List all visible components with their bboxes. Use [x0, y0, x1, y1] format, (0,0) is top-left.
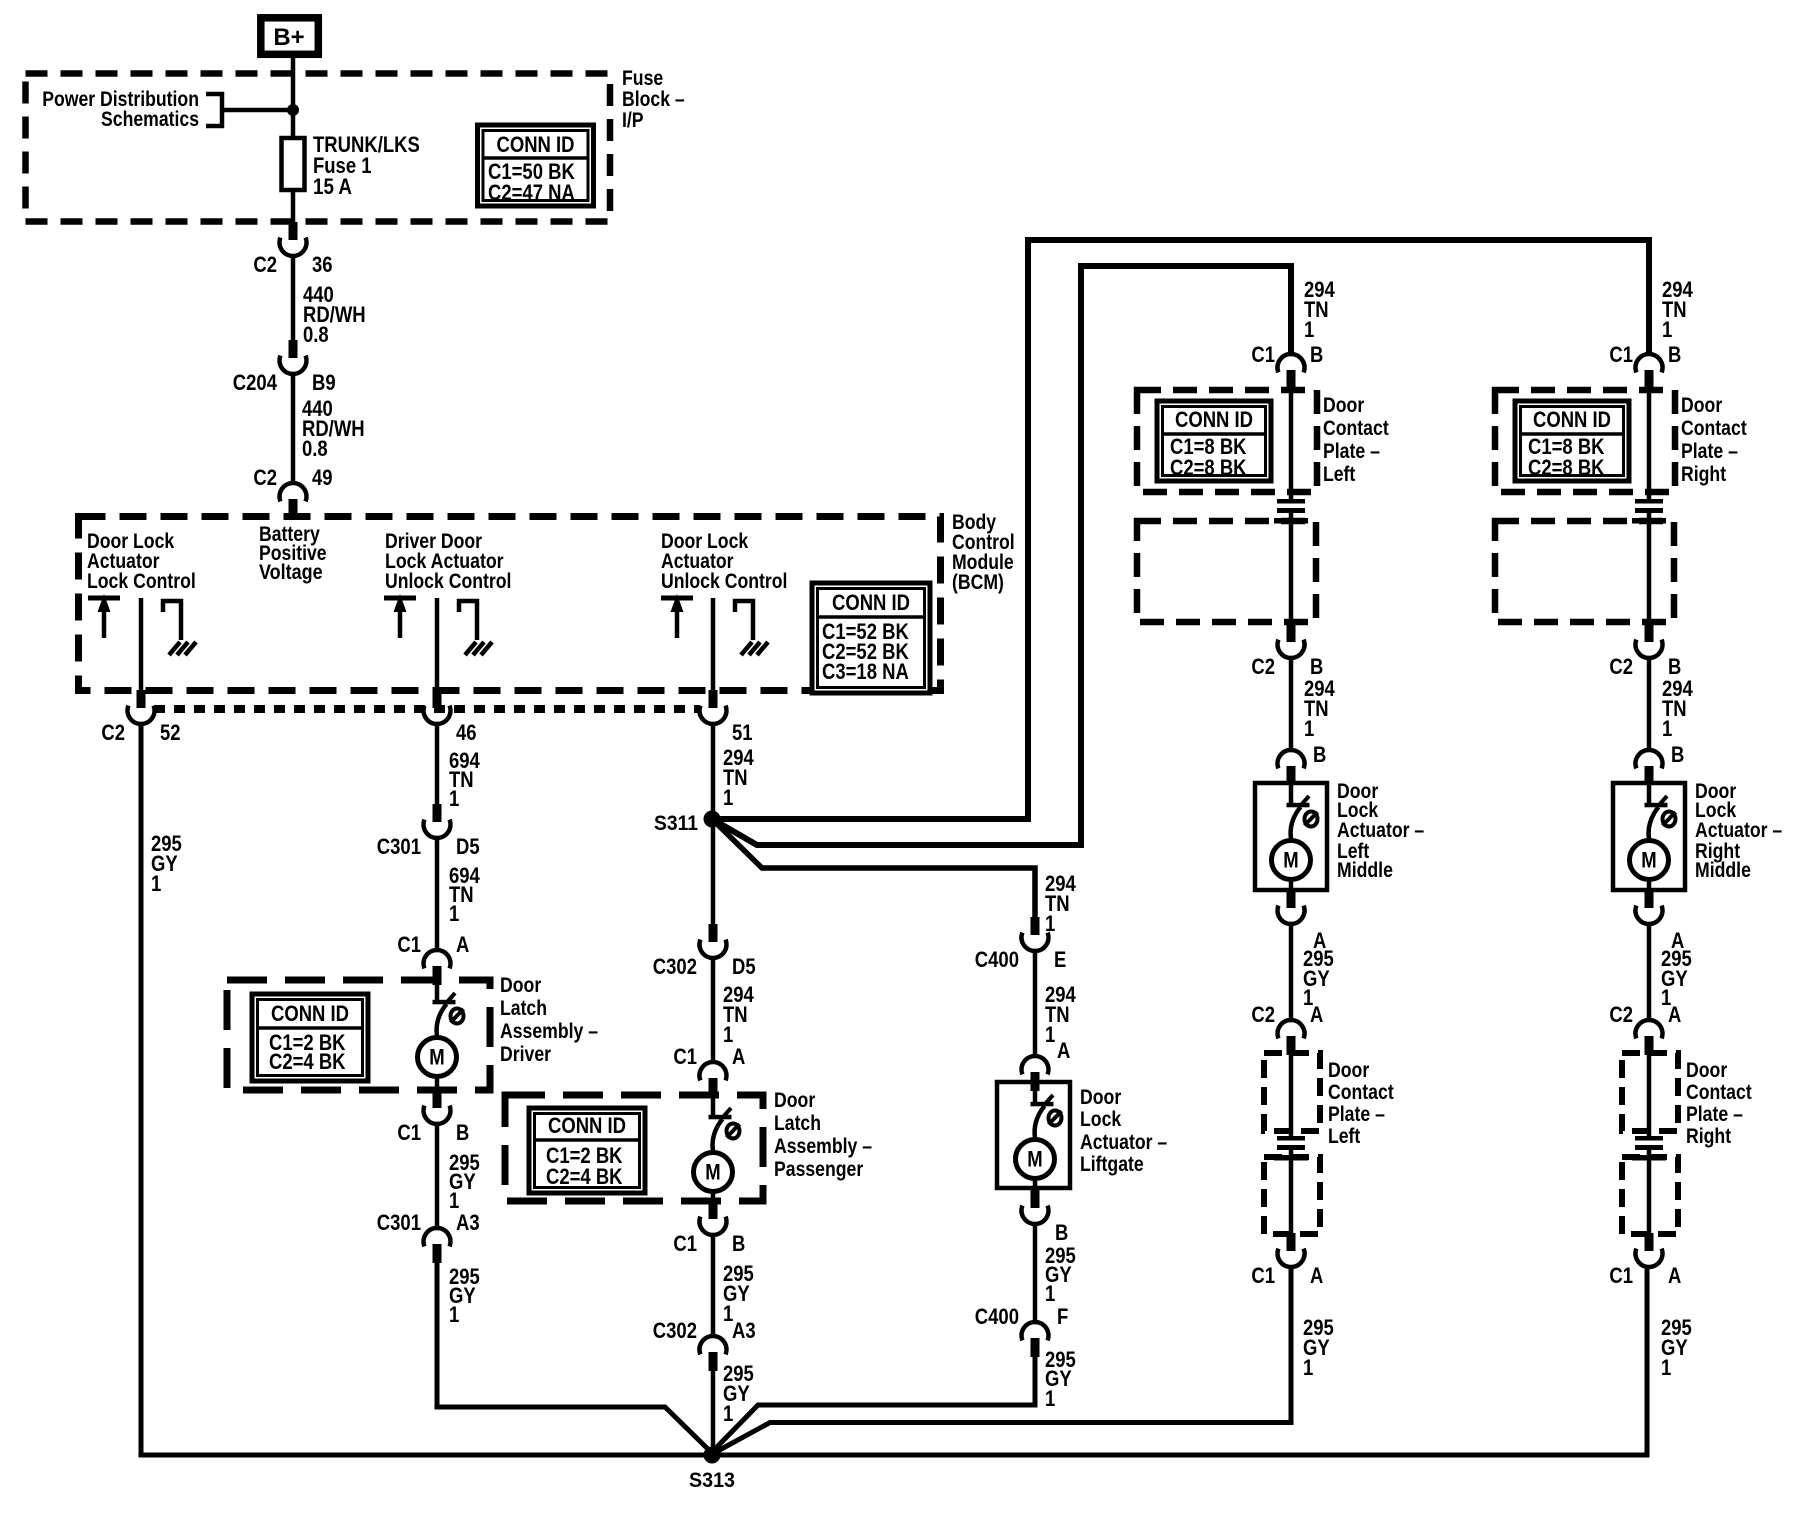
label 294 TN 1 left top — [1304, 277, 1335, 342]
label 294 TN 1 at S311 — [723, 745, 754, 810]
bracket to power distribution — [206, 94, 222, 126]
junction dot power tap — [287, 104, 299, 116]
connector pin A liftgate — [1022, 1038, 1071, 1091]
svg-text:Middle: Middle — [1695, 859, 1751, 882]
switch right middle actuator — [1645, 783, 1676, 839]
svg-text:Door: Door — [774, 1089, 815, 1112]
wire contact plate to C2 B right — [1647, 523, 1652, 625]
contact plate symbol left upper — [1274, 499, 1308, 524]
svg-text:Middle: Middle — [1337, 859, 1393, 882]
splice S311 — [654, 811, 721, 836]
svg-text:A3: A3 — [732, 1318, 756, 1343]
svg-text:C2: C2 — [1609, 654, 1633, 679]
svg-text:Right: Right — [1681, 463, 1726, 486]
svg-text:C2: C2 — [101, 720, 125, 745]
wire 51 to S311 — [711, 724, 716, 924]
label Fuse Block - I/P — [622, 67, 685, 132]
connector C301 pin A3 — [377, 1210, 480, 1263]
door lock actuator right middle box — [1613, 783, 1685, 890]
connector C2 pin A right — [1609, 1002, 1681, 1055]
label 295 GY 1 liftgate upper — [1045, 1243, 1076, 1306]
svg-text:S311: S311 — [654, 812, 698, 835]
label Driver Door Lock Actuator Unlock Control — [385, 530, 511, 593]
label Door Lock Actuator Left Middle — [1337, 780, 1424, 882]
wire 295 GY 1 left column to S313 — [141, 724, 1647, 1455]
connector C2 pin 36 — [253, 222, 332, 277]
svg-text:C400: C400 — [975, 947, 1019, 972]
svg-text:Unlock Control: Unlock Control — [661, 570, 787, 593]
svg-text:Voltage: Voltage — [259, 561, 323, 584]
svg-text:Passenger: Passenger — [774, 1158, 863, 1181]
svg-text:C2: C2 — [253, 465, 277, 490]
svg-text:A: A — [732, 1044, 745, 1069]
svg-text:C1: C1 — [397, 932, 421, 957]
connector pin A right — [1636, 890, 1685, 953]
driver symbol arrow driver unlock — [384, 594, 416, 638]
label Door Latch Assembly Driver — [500, 974, 598, 1066]
svg-text:51: 51 — [732, 720, 753, 745]
svg-text:Unlock Control: Unlock Control — [385, 570, 511, 593]
svg-text:M: M — [1027, 1147, 1042, 1172]
splice S313 — [689, 1447, 735, 1493]
svg-text:Contact: Contact — [1681, 417, 1747, 440]
fuse F1 TRUNK/LKS 15A — [282, 138, 305, 190]
motor M right middle — [1630, 841, 1669, 880]
svg-text:B: B — [732, 1231, 745, 1256]
svg-text:C2=8 BK: C2=8 BK — [1170, 455, 1247, 480]
contact plate symbol right upper — [1632, 499, 1666, 524]
svg-text:C1: C1 — [1609, 342, 1633, 367]
wire BCM lock control output — [139, 598, 144, 692]
connector C400 pin F — [975, 1304, 1069, 1357]
svg-text:Contact: Contact — [1323, 417, 1389, 440]
svg-text:M: M — [429, 1045, 444, 1070]
svg-text:Actuator –: Actuator – — [1337, 819, 1424, 842]
svg-text:C204: C204 — [233, 370, 278, 395]
svg-text:C1: C1 — [1609, 1263, 1633, 1288]
svg-text:Plate –: Plate – — [1323, 440, 1380, 463]
svg-text:B9: B9 — [312, 370, 336, 395]
svg-text:1: 1 — [449, 786, 459, 811]
wire into contact plate right lower — [1647, 1053, 1652, 1137]
svg-text:C2=47 NA: C2=47 NA — [488, 180, 575, 205]
svg-text:B: B — [1313, 742, 1326, 767]
wire 294 TN 1 passenger — [711, 958, 716, 1062]
svg-text:C2=8 BK: C2=8 BK — [1528, 455, 1605, 480]
label Body Control Module BCM — [952, 511, 1015, 594]
svg-text:C1: C1 — [673, 1044, 697, 1069]
connector C2 pin 46 — [424, 690, 477, 745]
svg-text:D5: D5 — [732, 954, 756, 979]
label 295 GY 1 left — [151, 831, 182, 896]
svg-text:1: 1 — [1304, 317, 1314, 342]
svg-text:Fuse: Fuse — [622, 67, 663, 90]
svg-text:C1: C1 — [673, 1231, 697, 1256]
connector pin B liftgate — [1022, 1190, 1069, 1245]
svg-text:1: 1 — [723, 785, 733, 810]
wire 295 GY 1 passenger upper — [711, 1235, 716, 1336]
svg-text:1: 1 — [1304, 716, 1314, 741]
svg-text:F: F — [1057, 1304, 1068, 1329]
label 294 TN 1 liftgate lower — [1045, 982, 1076, 1047]
switch driver latch — [433, 980, 464, 1036]
driver symbol arrow lock control — [88, 594, 120, 638]
label 694 TN 1 lower — [449, 863, 480, 926]
svg-text:A: A — [1310, 1002, 1323, 1027]
connector C1 pin B left contact plate — [1251, 342, 1323, 389]
label Power Distribution Schematics — [42, 88, 199, 131]
svg-text:1: 1 — [1303, 1355, 1313, 1380]
wire B+ to fuse — [291, 58, 296, 138]
svg-text:B: B — [1055, 1220, 1068, 1245]
svg-text:15 A: 15 A — [313, 174, 352, 199]
conn id box BCM C1=52 BK C2=52 BK C3=18 NA — [812, 583, 930, 693]
motor M passenger latch — [694, 1153, 733, 1192]
svg-text:C400: C400 — [975, 1304, 1019, 1329]
door contact plate right upper dashed box — [1495, 390, 1675, 492]
door lock actuator left middle box — [1255, 783, 1327, 890]
label Door Lock Actuator Lock Control — [87, 530, 196, 593]
fuse block dashed box — [26, 74, 611, 222]
door contact plate left lower empty dashed box — [1264, 1157, 1320, 1234]
svg-text:Driver: Driver — [500, 1043, 551, 1066]
svg-text:C2: C2 — [1251, 654, 1275, 679]
door contact plate right upper empty dashed box — [1495, 521, 1674, 622]
power symbol B+ — [261, 18, 319, 55]
wire contact plate to C1 A left — [1289, 1160, 1294, 1234]
contact plate symbol left lower — [1274, 1136, 1308, 1161]
svg-text:46: 46 — [456, 720, 477, 745]
svg-text:Lock: Lock — [1080, 1108, 1121, 1131]
svg-text:49: 49 — [312, 465, 333, 490]
label TRUNK/LKS Fuse 1 15 A — [313, 132, 420, 199]
door contact plate right lower empty dashed box — [1622, 1157, 1678, 1234]
wire BCM driver unlock output — [435, 598, 440, 692]
label 295 GY 1 driver lower — [449, 1264, 480, 1327]
door contact plate right lower dashed box — [1622, 1053, 1678, 1131]
label Door Lock Actuator Unlock Control — [661, 530, 787, 593]
svg-text:A: A — [1668, 1263, 1681, 1288]
svg-text:C302: C302 — [653, 954, 697, 979]
svg-text:52: 52 — [160, 720, 181, 745]
conn id box passenger latch C1=2 BK C2=4 BK — [529, 1108, 645, 1193]
connector C302 pin D5 — [653, 924, 756, 979]
wire 295 GY 1 passenger lower to S313 — [711, 1370, 716, 1455]
svg-text:1: 1 — [449, 1302, 459, 1327]
label 295 GY 1 left lower — [1303, 1315, 1334, 1380]
svg-text:Door: Door — [1686, 1059, 1727, 1082]
switch liftgate actuator — [1031, 1082, 1062, 1138]
wire 295 GY 1 left middle to S313 — [714, 1265, 1291, 1453]
wire motor to A right — [1647, 879, 1652, 890]
svg-text:36: 36 — [312, 252, 333, 277]
svg-text:1: 1 — [1045, 1022, 1055, 1047]
ground hook driver unlock — [459, 601, 492, 655]
svg-text:Door: Door — [1681, 394, 1722, 417]
contact plate symbol right lower — [1632, 1136, 1666, 1161]
svg-text:C2: C2 — [253, 252, 277, 277]
svg-text:1: 1 — [1661, 1355, 1671, 1380]
svg-text:C301: C301 — [377, 834, 421, 859]
connector C1 pin B driver — [397, 1090, 469, 1145]
svg-text:Door: Door — [1323, 394, 1364, 417]
connector C2 pin B left — [1251, 624, 1323, 679]
svg-text:C302: C302 — [653, 1318, 697, 1343]
ground hook unlock — [735, 601, 768, 655]
svg-text:1: 1 — [1662, 317, 1672, 342]
motor M left middle — [1272, 841, 1311, 880]
svg-text:S313: S313 — [689, 1469, 735, 1492]
ground hook lock control — [163, 601, 196, 655]
svg-text:Left: Left — [1323, 463, 1355, 486]
svg-text:A3: A3 — [456, 1210, 480, 1235]
motor M liftgate — [1016, 1140, 1055, 1179]
svg-text:Actuator –: Actuator – — [1695, 819, 1782, 842]
wire bus S311 to right door contact plate — [712, 240, 1649, 819]
label Door Contact Plate Left upper — [1323, 394, 1389, 486]
svg-text:1: 1 — [151, 871, 161, 896]
label Door Lock Actuator Liftgate — [1080, 1086, 1167, 1176]
label 295 GY 1 right lower — [1661, 1315, 1692, 1380]
label Door Contact Plate Right upper — [1681, 394, 1747, 486]
svg-text:Liftgate: Liftgate — [1080, 1153, 1144, 1176]
svg-text:C1: C1 — [397, 1120, 421, 1145]
wire 440 RD/WH 0.8 lower — [291, 374, 296, 483]
svg-text:E: E — [1054, 947, 1066, 972]
svg-text:B: B — [1668, 342, 1681, 367]
door latch assembly driver dashed box — [227, 980, 490, 1090]
driver symbol arrow unlock — [661, 594, 693, 638]
svg-text:Plate –: Plate – — [1328, 1103, 1385, 1126]
svg-text:0.8: 0.8 — [302, 436, 328, 461]
dotted connector line C2 — [154, 705, 699, 713]
wire BCM unlock output — [711, 598, 716, 692]
wire into contact plate right — [1647, 388, 1652, 500]
wire motor to C1 B passenger — [711, 1191, 716, 1201]
wire 294 TN 1 left — [1289, 658, 1294, 750]
motor M driver latch — [418, 1038, 457, 1077]
svg-text:A: A — [456, 932, 469, 957]
svg-text:M: M — [1641, 848, 1656, 873]
connector C400 pin E — [975, 917, 1067, 972]
svg-text:CONN ID: CONN ID — [271, 1001, 349, 1026]
svg-text:B: B — [1671, 742, 1684, 767]
svg-text:1: 1 — [449, 901, 459, 926]
connector C2 pin 49 — [253, 465, 332, 518]
connector C1 pin B right contact plate — [1609, 342, 1681, 389]
svg-text:C301: C301 — [377, 1210, 421, 1235]
label 440 RD/WH 0.8 lower — [302, 396, 365, 461]
wire motor to A left — [1289, 879, 1294, 890]
svg-text:A: A — [1057, 1038, 1070, 1063]
svg-text:CONN ID: CONN ID — [497, 132, 575, 157]
door contact plate left upper empty dashed box — [1137, 521, 1316, 622]
svg-text:C1: C1 — [1251, 342, 1275, 367]
connector C1 pin B passenger — [673, 1201, 745, 1256]
svg-text:Actuator –: Actuator – — [1080, 1131, 1167, 1154]
label 294 TN 1 right top — [1662, 277, 1693, 342]
svg-text:1: 1 — [1045, 1281, 1055, 1306]
svg-text:1: 1 — [1662, 716, 1672, 741]
wire 295 GY 1 left upper — [1289, 924, 1294, 1020]
svg-text:Assembly –: Assembly – — [774, 1135, 872, 1158]
label Door Contact Plate Right lower — [1686, 1059, 1752, 1148]
svg-text:CONN ID: CONN ID — [1175, 407, 1253, 432]
svg-text:Right: Right — [1686, 1125, 1731, 1148]
svg-text:Left: Left — [1328, 1125, 1360, 1148]
svg-text:Lock Control: Lock Control — [87, 570, 196, 593]
connector C302 pin A3 — [653, 1318, 756, 1371]
wire motor to C1 B — [435, 1076, 440, 1090]
wire 295 GY 1 right upper — [1647, 924, 1652, 1020]
svg-text:CONN ID: CONN ID — [832, 590, 910, 615]
door lock actuator liftgate box — [997, 1082, 1070, 1188]
svg-text:I/P: I/P — [622, 109, 644, 132]
svg-text:Latch: Latch — [500, 997, 547, 1020]
wire 295 GY 1 liftgate lower to S313 — [712, 1356, 1035, 1452]
label 694 TN 1 upper — [449, 748, 480, 811]
label Battery Positive Voltage — [259, 523, 327, 584]
label 440 RD/WH 0.8 upper — [303, 282, 366, 347]
wire bracket tap — [222, 108, 293, 113]
switch left middle actuator — [1287, 783, 1318, 839]
conn id box left contact plate C1=8 BK C2=8 BK — [1157, 401, 1271, 481]
connector pin B left actuator — [1278, 742, 1327, 785]
door contact plate left lower dashed box — [1264, 1053, 1320, 1131]
label Door Lock Actuator Right Middle — [1695, 780, 1782, 882]
svg-text:Latch: Latch — [774, 1112, 821, 1135]
connector C204 pin B9 — [233, 340, 336, 395]
wire 294 TN 1 right — [1647, 658, 1652, 750]
connector C1 pin A driver latch — [397, 932, 469, 985]
svg-text:Door: Door — [500, 974, 541, 997]
connector pin B right actuator — [1636, 742, 1685, 785]
door contact plate left upper dashed box — [1137, 390, 1317, 492]
svg-text:(BCM): (BCM) — [952, 571, 1004, 594]
wire 295 GY 1 driver lower to S313 — [437, 1262, 712, 1453]
wire 294 TN 1 liftgate — [1033, 951, 1038, 1056]
connector C2 pin 51 — [700, 690, 753, 745]
svg-text:Door: Door — [1328, 1059, 1369, 1082]
switch passenger latch — [709, 1095, 740, 1151]
label 294 TN 1 liftgate upper — [1045, 871, 1076, 936]
svg-text:1: 1 — [1045, 911, 1055, 936]
wire bus S311 to left door contact plate — [712, 266, 1291, 845]
connector C1 pin A right — [1609, 1233, 1681, 1288]
connector C1 pin A passenger latch — [673, 1044, 745, 1097]
svg-text:0.8: 0.8 — [303, 322, 329, 347]
label 294 TN 1 right mid — [1662, 676, 1693, 741]
svg-text:Plate –: Plate – — [1681, 440, 1738, 463]
BCM dashed box — [79, 517, 941, 691]
svg-text:B+: B+ — [273, 24, 304, 51]
label 294 TN 1 passenger — [723, 982, 754, 1047]
svg-text:A: A — [1668, 1002, 1681, 1027]
svg-text:CONN ID: CONN ID — [1533, 407, 1611, 432]
label 295 GY 1 passenger lower — [723, 1361, 754, 1426]
label 295 GY 1 driver upper — [449, 1150, 480, 1213]
wire 694 TN 1 — [435, 838, 440, 950]
svg-text:D5: D5 — [456, 834, 480, 859]
connector pin A left — [1278, 890, 1327, 953]
svg-text:1: 1 — [1045, 1386, 1055, 1411]
wire 295 GY 1 liftgate upper — [1033, 1224, 1038, 1322]
svg-text:Block –: Block – — [622, 88, 685, 111]
label Door Latch Assembly Passenger — [774, 1089, 872, 1181]
wire motor to B liftgate — [1033, 1178, 1038, 1190]
wire 440 RD/WH 0.8 upper — [291, 256, 296, 340]
svg-text:C2=4 BK: C2=4 BK — [269, 1049, 346, 1074]
label 295 GY 1 right upper — [1661, 946, 1692, 1010]
connector C2 pin A left — [1251, 1002, 1323, 1055]
svg-text:C2: C2 — [1609, 1002, 1633, 1027]
svg-text:C2=4 BK: C2=4 BK — [546, 1164, 623, 1189]
wire 295 GY 1 driver upper — [435, 1124, 440, 1228]
wire bus S311 to liftgate — [712, 819, 1035, 917]
wire contact plate to C1 A right — [1647, 1160, 1652, 1234]
svg-text:Contact: Contact — [1686, 1081, 1752, 1104]
connector C2 pin B right — [1609, 624, 1681, 679]
connector C1 pin A left — [1251, 1233, 1323, 1288]
label 295 GY 1 left upper — [1303, 946, 1334, 1010]
svg-text:Door: Door — [1080, 1086, 1121, 1109]
svg-text:C3=18 NA: C3=18 NA — [822, 659, 909, 684]
svg-text:M: M — [705, 1160, 720, 1185]
svg-text:Schematics: Schematics — [101, 108, 199, 131]
label Door Contact Plate Left lower — [1328, 1059, 1394, 1148]
svg-text:C2: C2 — [1251, 1002, 1275, 1027]
svg-text:1: 1 — [723, 1401, 733, 1426]
svg-text:B: B — [1310, 342, 1323, 367]
wire contact plate to C2 B left — [1289, 523, 1294, 625]
svg-text:B: B — [456, 1120, 469, 1145]
conn id box fuse block C1=50 BK C2=47 NA — [478, 125, 594, 206]
svg-text:A: A — [1310, 1263, 1323, 1288]
wire into contact plate left lower — [1289, 1053, 1294, 1137]
label 295 GY 1 passenger upper — [723, 1261, 754, 1326]
label 295 GY 1 liftgate lower — [1045, 1347, 1076, 1411]
svg-text:M: M — [1283, 848, 1298, 873]
svg-text:Plate –: Plate – — [1686, 1103, 1743, 1126]
svg-text:Contact: Contact — [1328, 1081, 1394, 1104]
svg-text:C1: C1 — [1251, 1263, 1275, 1288]
door latch assembly passenger dashed box — [505, 1095, 763, 1201]
connector C301 pin D5 — [377, 804, 480, 859]
connector C2 pin 52 — [101, 690, 180, 745]
wire 46 to C301 — [435, 724, 440, 804]
svg-text:CONN ID: CONN ID — [548, 1113, 626, 1138]
conn id box right contact plate C1=8 BK C2=8 BK — [1515, 401, 1629, 481]
conn id box driver latch C1=2 BK C2=4 BK — [252, 994, 368, 1081]
svg-text:Assembly –: Assembly – — [500, 1020, 598, 1043]
wire into contact plate left — [1289, 388, 1294, 500]
label 294 TN 1 left mid — [1304, 676, 1335, 741]
wire fuse to C2 pin 36 — [291, 190, 296, 222]
